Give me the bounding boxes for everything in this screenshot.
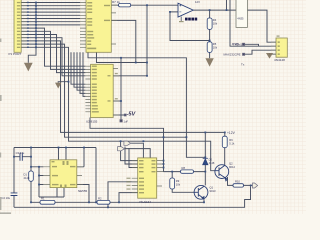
svg-text:R2: R2 (98, 197, 102, 201)
svg-text:-5V: -5V (127, 111, 137, 117)
svg-text:R7 1k: R7 1k (112, 0, 120, 4)
svg-text:Tx: Tx (241, 62, 245, 66)
svg-text:4148: 4148 (24, 176, 30, 180)
svg-text:R8: R8 (182, 166, 186, 170)
svg-text:R5: R5 (213, 42, 217, 46)
svg-text:10k: 10k (176, 183, 181, 187)
svg-text:4N4148: 4N4148 (274, 58, 285, 62)
svg-text:10k: 10k (213, 22, 218, 26)
svg-text:4N35: 4N35 (237, 17, 244, 21)
svg-text:4N35: 4N35 (232, 42, 240, 46)
svg-text:74LS164: 74LS164 (139, 200, 151, 204)
svg-text:P1 PORT: P1 PORT (9, 52, 22, 56)
svg-text:5.1k: 5.1k (229, 141, 235, 145)
svg-text:D1: D1 (24, 172, 28, 176)
svg-text:MAX232CPE: MAX232CPE (224, 52, 241, 56)
svg-text:12V: 12V (195, 0, 200, 4)
svg-text:C3 47u: C3 47u (16, 151, 25, 155)
svg-text:D2: D2 (209, 157, 213, 161)
svg-text:R10: R10 (235, 180, 240, 184)
svg-text:9013: 9013 (210, 189, 216, 193)
svg-text:R4: R4 (213, 18, 217, 22)
svg-text:Q1: Q1 (210, 186, 214, 190)
svg-text:R1: R1 (41, 197, 45, 201)
svg-text:C2 10u: C2 10u (2, 196, 11, 200)
svg-text:Q2: Q2 (229, 161, 233, 165)
svg-text:U2 8155: U2 8155 (86, 119, 98, 123)
svg-text:+12V: +12V (227, 131, 236, 135)
svg-text:NE555: NE555 (78, 189, 88, 193)
svg-text:9012: 9012 (229, 165, 235, 169)
svg-text:10k: 10k (213, 46, 218, 50)
svg-text:R9: R9 (176, 179, 180, 183)
svg-text:1uF: 1uF (124, 120, 129, 124)
svg-text:R6: R6 (229, 138, 233, 142)
svg-text:4148: 4148 (209, 161, 215, 165)
